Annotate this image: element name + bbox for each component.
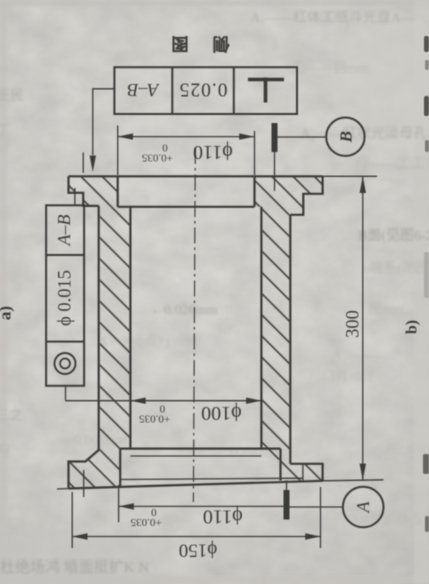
hatch: top flange left	[69, 176, 118, 207]
centerline	[193, 148, 195, 502]
svg-text:ϕ110: ϕ110	[203, 506, 243, 528]
bottom counterbore walls	[119, 449, 121, 488]
svg-text:丁: 丁	[0, 124, 10, 139]
bottom counterbore ceiling	[120, 448, 280, 450]
FCF concentricity frame left	[46, 205, 84, 385]
hatch: right wall	[261, 215, 290, 460]
watermark glyphs (rotated 180)	[172, 34, 230, 54]
FCF perpendicularity frame top	[114, 67, 297, 114]
datum A	[284, 490, 290, 520]
bottom flange right	[290, 464, 322, 481]
svg-text:b): b)	[404, 320, 421, 334]
svg-text:A₂=——: A₂=——	[332, 349, 384, 364]
dimension φ100 mid	[66, 386, 262, 401]
small tick below bottom face	[83, 470, 85, 497]
svg-text:工——钢mm: 工——钢mm	[290, 60, 368, 76]
svg-text:A–B: A–B	[128, 80, 160, 100]
svg-text:侧: 侧	[213, 34, 230, 54]
page right edge binding marks	[423, 36, 429, 532]
svg-text:]肖=0.]: ]肖=0.]	[330, 368, 372, 384]
datum B	[272, 123, 278, 152]
svg-text:ϕ100: ϕ100	[201, 402, 242, 424]
svg-text:ϕ150: ϕ150	[179, 540, 218, 561]
svg-text:ϕ110: ϕ110	[193, 141, 233, 163]
hatch: bottom left flange	[69, 449, 121, 488]
part outline: top flange	[69, 176, 323, 488]
concentricity symbol	[55, 353, 76, 374]
main drawing	[46, 67, 383, 548]
small tick above top face	[82, 152, 84, 172]
dimension 300 right	[362, 176, 364, 480]
FCF top tick	[74, 188, 76, 205]
hatch: top flange right	[255, 176, 323, 215]
svg-text:ϕ 0.015: ϕ 0.015	[56, 270, 76, 326]
FCF leader	[93, 89, 115, 155]
svg-text:0.025: 0.025	[179, 79, 228, 100]
hatch: bottom right flange	[281, 449, 323, 481]
inner step line near bottom	[130, 455, 261, 457]
svg-text:A–B: A–B	[54, 215, 74, 247]
recess line above bottom face	[120, 478, 303, 479]
top face	[69, 175, 323, 177]
right wall outer	[289, 215, 291, 464]
svg-text:A: A	[353, 501, 373, 514]
phi110 bottom (rot 180)	[130, 506, 242, 529]
svg-text:0: 0	[151, 506, 157, 518]
dimension φ110 bottom	[119, 485, 284, 522]
dimension φ110 top	[118, 126, 255, 176]
right flange edge	[290, 176, 322, 215]
svg-text:0: 0	[159, 403, 165, 415]
svg-text:300: 300	[344, 310, 364, 338]
svg-text:B面(见图6-21)0: B面(见图6-21)0	[358, 229, 429, 244]
svg-text:A₁——红体工纸斗光盘A—: A₁——红体工纸斗光盘A—	[250, 9, 416, 26]
svg-text:母——工工了：: 母——工工了：	[355, 156, 429, 172]
phi110 top (rot 180)	[141, 141, 232, 164]
dimension φ150 bottom	[72, 487, 320, 548]
perpendicularity symbol (rotated 180)	[248, 78, 284, 103]
svg-text:王民: 王民	[0, 89, 24, 104]
svg-text:图: 图	[172, 34, 189, 53]
svg-text:←0.026mm: ←0.026mm	[150, 303, 217, 318]
svg-text:a): a)	[0, 306, 15, 320]
bottom flange left	[69, 450, 99, 488]
svg-text:n端系(测图0定)标: n端系(测图0定)标	[362, 260, 429, 276]
svg-text:B: B	[336, 131, 355, 143]
phi100 mid (rot 180)	[139, 402, 242, 425]
svg-text:0: 0	[162, 141, 168, 153]
svg-text:与: 与	[0, 443, 10, 459]
bottom face	[69, 481, 323, 489]
svg-text:围mm: 围mm	[368, 303, 404, 318]
svg-text:三之: 三之	[0, 408, 23, 424]
bottom flange right step	[302, 464, 304, 481]
left wall outer	[98, 206, 100, 450]
hatch: left wall	[100, 207, 130, 449]
top face extension right	[323, 175, 377, 177]
svg-text:杜绝场鸿 墙面挺扩K N: 杜绝场鸿 墙面挺扩K N	[0, 559, 149, 576]
top counterbore	[118, 176, 255, 207]
left flange edge	[69, 176, 99, 206]
bottom face extension	[323, 480, 384, 481]
mid bore walls	[129, 207, 131, 449]
